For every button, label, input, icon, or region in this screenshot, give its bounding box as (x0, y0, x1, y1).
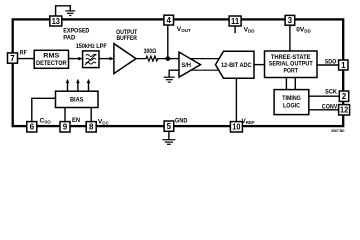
LPF block (filter icon) (83, 51, 99, 68)
EXPOSED PAD label (63, 27, 89, 41)
svg-text:PORT: PORT (283, 67, 298, 74)
node junction dot (166, 56, 171, 61)
svg-text:LOGIC: LOGIC (283, 103, 300, 110)
svg-text:12-BIT ADC: 12-BIT ADC (221, 62, 252, 69)
svg-text:13: 13 (52, 17, 61, 26)
svg-text:5587 BD: 5587 BD (331, 129, 345, 133)
pin 5 (GND) (164, 121, 174, 131)
wire VDD pin stub (234, 26, 236, 33)
wire OVDD pin to serial port (289, 26, 291, 52)
svg-text:11: 11 (231, 17, 240, 26)
svg-text:SCK: SCK (325, 88, 337, 95)
svg-text:BUFFER: BUFFER (116, 35, 137, 42)
pin 9 (EN) (60, 122, 70, 132)
svg-text:RF: RF (20, 50, 27, 57)
svg-text:12: 12 (340, 106, 349, 115)
pin 3 (OVDD) (285, 15, 295, 25)
BIAS block (56, 91, 99, 107)
svg-text:0VDD: 0VDD (296, 27, 311, 34)
wire serial port to SDO pin (317, 64, 339, 66)
pin 11 (VDD) (229, 16, 241, 26)
pin 2 (SCK) (339, 91, 348, 101)
wire RMS detector to LPF (arrow) (69, 57, 83, 61)
wire timing logic to SCK pin (309, 95, 340, 97)
svg-text:9: 9 (63, 123, 68, 132)
wire timing logic to CONV pin (309, 109, 339, 111)
pin 7 (RF) (8, 53, 18, 63)
wire ADC to VREF pin (235, 78, 237, 121)
timing logic block (274, 90, 309, 115)
bus wires S/H to ADC (190, 58, 223, 60)
svg-text:1: 1 (341, 61, 346, 70)
bias arrow 3 (87, 79, 91, 91)
svg-text:3: 3 (288, 16, 293, 25)
wire EN pin to BIAS (64, 108, 66, 122)
svg-text:EN: EN (72, 117, 80, 124)
svg-text:5: 5 (167, 122, 172, 131)
pin 12 (CONV) (339, 105, 350, 115)
svg-text:10: 10 (232, 123, 241, 132)
ground (S/H input) (164, 77, 175, 82)
three-state serial output port block (265, 51, 318, 78)
OUTPUT BUFFER label (116, 29, 137, 42)
pin 10 (VREF) (230, 122, 242, 132)
wire ADC to serial port (254, 64, 265, 66)
pin 6 (CSO) (27, 122, 37, 132)
svg-text:RMS: RMS (43, 53, 59, 60)
svg-text:TIMING: TIMING (282, 95, 301, 102)
svg-text:GND: GND (175, 118, 188, 125)
wire LPF to output buffer (arrow) (99, 57, 114, 61)
wire VCC pin to BIAS (90, 108, 92, 122)
wire RF pin to RMS detector (18, 58, 35, 60)
svg-text:2: 2 (342, 92, 347, 101)
ground (exposed pad) (65, 11, 75, 16)
ground (GND pin) (162, 140, 175, 145)
op-amp output buffer triangle (114, 44, 136, 74)
pin 4 (VOUT) (164, 15, 174, 25)
svg-text:7: 7 (10, 54, 15, 63)
svg-text:PAD: PAD (63, 35, 75, 42)
pin 13 (exposed pad) (50, 16, 62, 26)
svg-text:EXPOSED: EXPOSED (63, 27, 89, 34)
bias arrow 2 (76, 79, 80, 91)
svg-text:BIAS: BIAS (70, 97, 84, 104)
svg-text:VOUT: VOUT (177, 26, 191, 33)
svg-text:150kHz LPF: 150kHz LPF (76, 43, 107, 50)
svg-text:DETECTOR: DETECTOR (36, 60, 67, 67)
pin 1 (SDO) (339, 60, 348, 70)
S/H sample-and-hold triangle (179, 52, 201, 77)
svg-text:4: 4 (166, 16, 171, 25)
svg-text:S/H: S/H (182, 62, 192, 69)
svg-text:CSO: CSO (40, 118, 52, 125)
svg-text:VDD: VDD (244, 27, 256, 34)
wire GND pin to ground (168, 131, 170, 139)
resistor 300ohm (136, 56, 168, 61)
wire exposed pad to ground (56, 6, 71, 16)
12-bit ADC block (216, 51, 255, 78)
svg-text:8: 8 (89, 123, 94, 132)
RMS detector block (34, 50, 68, 68)
pin 8 (VCC) (86, 122, 96, 132)
svg-text:VREF: VREF (241, 118, 255, 125)
svg-text:CONV: CONV (322, 103, 338, 110)
wire CSO pin to BIAS (32, 98, 56, 121)
bias arrow 1 (66, 79, 70, 91)
wire junction up to VOUT pin (167, 25, 169, 58)
svg-text:6: 6 (30, 123, 35, 132)
svg-text:SDO: SDO (325, 59, 337, 66)
IC package outline (13, 19, 344, 126)
wire S/H lower input to ground (169, 70, 179, 77)
svg-text:300Ω: 300Ω (144, 48, 157, 55)
wires serial port to timing logic (285, 78, 287, 90)
wire junction to S/H input (168, 58, 179, 60)
svg-text:VCC: VCC (98, 118, 110, 125)
